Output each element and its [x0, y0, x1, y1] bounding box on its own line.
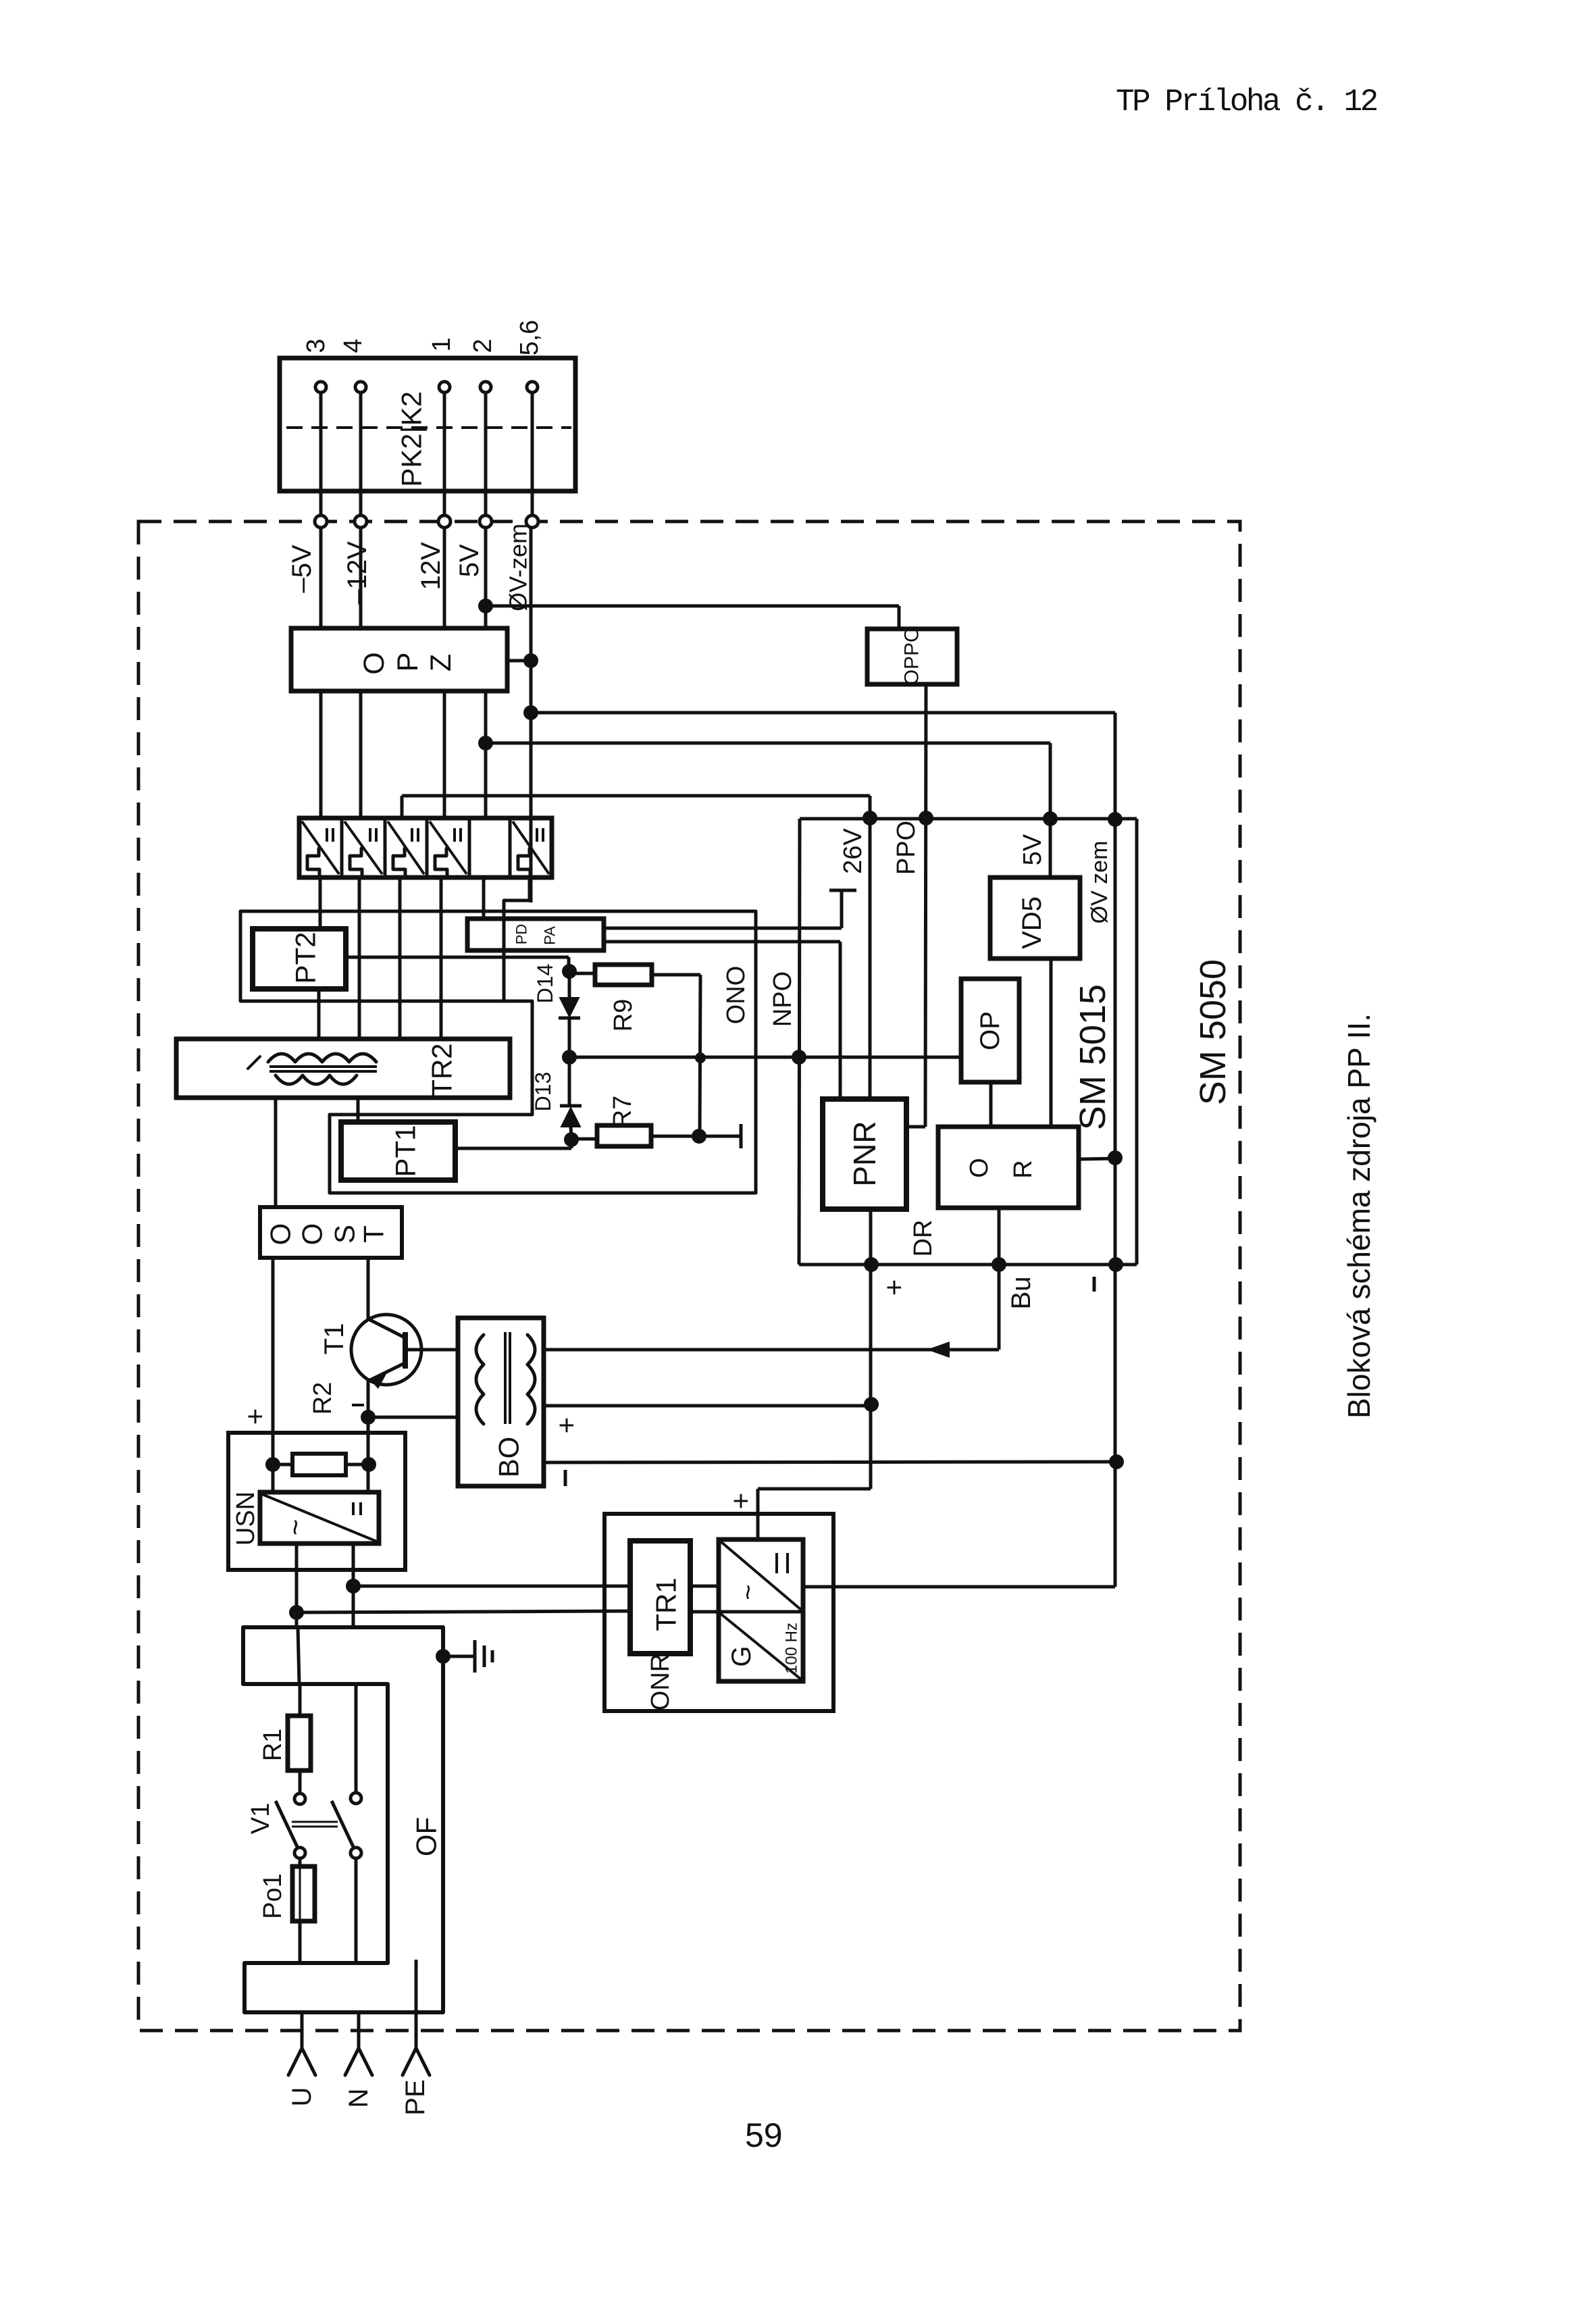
- border pin circle 2: [355, 515, 367, 528]
- wire pin 1 to border: [319, 392, 323, 515]
- converter cell 6 pulse symbol: [518, 848, 530, 876]
- svg-text:~: ~: [733, 1584, 763, 1600]
- switch V1 left blade: [276, 1801, 298, 1848]
- converter cell 6 diagonal: [513, 821, 549, 874]
- transformer TR1: [630, 1541, 690, 1654]
- svg-text:ONO: ONO: [722, 966, 750, 1025]
- wire T1 emitter down: [367, 1381, 370, 1492]
- svg-text:59: 59: [745, 2116, 783, 2154]
- svg-text:T: T: [358, 1225, 390, 1243]
- svg-text:O: O: [965, 1158, 994, 1178]
- svg-text:12V: 12V: [416, 542, 446, 590]
- diode D14: [560, 998, 579, 1017]
- svg-text:OPPO: OPPO: [901, 627, 923, 686]
- connector pin circle 2: [355, 382, 366, 392]
- wire -5V OPZ to converter: [319, 691, 323, 818]
- wire 5V to OPPO: [486, 605, 899, 608]
- wire USN output through OF bar: [298, 1627, 299, 1683]
- wire OOST to USN: [272, 1258, 275, 1492]
- wire OOST to T1 collector: [367, 1258, 370, 1319]
- svg-text:V1: V1: [247, 1803, 275, 1834]
- converter cell 1 diagonal: [302, 821, 339, 874]
- svg-text:+: +: [239, 1408, 271, 1425]
- converter G DC bar 1: [775, 1553, 778, 1573]
- wire USN out right: [352, 1544, 355, 1627]
- DC/DC converter row box: [299, 818, 552, 877]
- wire VD5 to OR: [1050, 959, 1053, 1127]
- converter USN inner: [260, 1492, 379, 1544]
- border pin circle 1: [315, 515, 327, 528]
- border pin circle 5: [526, 515, 538, 528]
- wire 26V feed horizontal: [402, 794, 870, 798]
- wire PPO horizontal: [800, 817, 1137, 821]
- label minus BO: [564, 1470, 567, 1486]
- wire D14 to R9: [569, 972, 595, 975]
- wire 5V rail to VD5 column: [486, 742, 1050, 745]
- wire 26V feed drop to cell3: [401, 796, 404, 818]
- converter G diagonal upper: [721, 1541, 801, 1610]
- terminal arrow N: [345, 2048, 372, 2075]
- converter G DC bar 2: [786, 1553, 789, 1573]
- wire 0V zem rail to ONR: [833, 1585, 1115, 1589]
- svg-text:PNR: PNR: [847, 1121, 882, 1186]
- svg-text:~: ~: [280, 1519, 311, 1536]
- svg-text:ONR: ONR: [646, 1654, 675, 1710]
- svg-text:3: 3: [302, 338, 330, 353]
- resistor R1: [288, 1716, 311, 1770]
- wire PD/PA to 26V terminal: [604, 927, 842, 930]
- wire node to OP: [569, 1056, 961, 1059]
- svg-text:N: N: [344, 2089, 374, 2108]
- junction R9/OP line: [695, 1052, 706, 1063]
- wire R9 right: [652, 973, 700, 977]
- svg-text:PK2|K2: PK2|K2: [396, 391, 428, 487]
- wire PNR top lead left: [839, 942, 842, 1099]
- block OR: [938, 1127, 1079, 1208]
- svg-text:BO: BO: [493, 1437, 525, 1478]
- switch V1 right top contact: [351, 1793, 361, 1804]
- svg-text:OF: OF: [411, 1817, 442, 1856]
- wire BO plus output: [544, 1404, 871, 1408]
- svg-text:Bu: Bu: [1006, 1277, 1036, 1310]
- wire -12V: [359, 528, 363, 628]
- wire D13 to R7: [571, 1138, 597, 1141]
- svg-text:5,6: 5,6: [515, 320, 544, 356]
- junction D14 anode: [562, 964, 577, 979]
- TR2 core line 2: [269, 1070, 377, 1073]
- arrowhead Bu feed: [927, 1342, 950, 1358]
- TR2 core line 1: [269, 1065, 377, 1068]
- junction ground node: [436, 1649, 451, 1664]
- svg-text:PD: PD: [513, 924, 530, 945]
- wire NPO vertical: [799, 819, 800, 1265]
- junction DR/plus rail: [864, 1257, 879, 1272]
- svg-text:R: R: [1009, 1160, 1037, 1178]
- junction USN left/TR1 line: [289, 1605, 304, 1620]
- svg-text:Z: Z: [425, 654, 457, 671]
- wire PT2 right to D14: [346, 956, 569, 959]
- wire TR1 to G lower: [690, 1610, 719, 1614]
- wire R2 right stub: [346, 1463, 368, 1467]
- terminal bar R7 node: [740, 1124, 743, 1148]
- wire 12V: [443, 528, 446, 628]
- junction node/NPO wire: [792, 1050, 806, 1065]
- junction PPO/VD5 column: [1043, 811, 1058, 826]
- svg-text:5V: 5V: [1019, 834, 1047, 865]
- svg-text:SM 5015: SM 5015: [1073, 984, 1113, 1130]
- svg-text:TR1: TR1: [650, 1577, 682, 1631]
- wire R9 drop: [700, 975, 700, 1136]
- wire OPPO top lead: [898, 606, 901, 629]
- wire minus rail drop: [1135, 819, 1139, 1265]
- svg-text:T1: T1: [319, 1323, 349, 1355]
- junction 0V/OPZ stub: [523, 653, 538, 668]
- BO core line 2: [509, 1332, 511, 1424]
- converter cell 4 diagonal: [430, 821, 467, 874]
- TR2 core tick: [248, 1056, 260, 1069]
- wire OPZ right stub to 0V: [507, 659, 531, 663]
- svg-text:SM 5050: SM 5050: [1193, 959, 1233, 1105]
- svg-text:PT1: PT1: [390, 1125, 421, 1177]
- border pin circle 4: [480, 515, 492, 528]
- wire N terminal: [357, 2014, 361, 2048]
- block PD/PA: [467, 919, 604, 950]
- resistor R7: [597, 1125, 651, 1146]
- wire TR2 to OOST: [274, 1098, 278, 1207]
- converter G diagonal lower: [721, 1614, 801, 1679]
- block PT2: [253, 929, 346, 989]
- wire TR1 to G upper: [690, 1585, 719, 1588]
- svg-text:U: U: [287, 2087, 317, 2107]
- wire TR2 to PT1: [357, 1098, 360, 1122]
- svg-text:R1: R1: [259, 1729, 287, 1762]
- svg-text:PT2: PT2: [290, 932, 321, 984]
- wire DR line: [799, 1263, 1137, 1267]
- wire 26V terminal stub: [840, 892, 844, 928]
- box ONO stepped outline: [240, 911, 756, 1193]
- wire R2 left stub: [273, 1463, 292, 1467]
- svg-text:D13: D13: [531, 1072, 555, 1112]
- wire OR right to zem: [1079, 1158, 1115, 1159]
- svg-text:VD5: VD5: [1017, 896, 1047, 949]
- converter divider 4: [468, 818, 471, 877]
- wire Bu vertical: [998, 1208, 1001, 1350]
- svg-text:G: G: [727, 1646, 756, 1666]
- fuse Po1: [292, 1866, 315, 1921]
- wire cell3 to TR2: [398, 877, 402, 1039]
- svg-text:2: 2: [469, 338, 497, 353]
- wire 5V: [484, 528, 488, 628]
- USN converter DC bar 2: [359, 1502, 362, 1515]
- connector pin circle 1: [315, 382, 326, 392]
- junction zem/BO minus: [1109, 1454, 1124, 1469]
- wire -5V: [319, 528, 323, 628]
- connector pin circle 3: [439, 382, 450, 392]
- wire Bu horizontal: [871, 1348, 999, 1352]
- converter divider 3: [426, 818, 429, 877]
- junction 0V/zem line: [523, 705, 538, 720]
- block OP: [961, 979, 1019, 1082]
- wire BO minus output: [544, 1462, 1116, 1462]
- wire 0V jog to ONO: [504, 877, 530, 1001]
- connector pin circle 5: [527, 382, 538, 392]
- svg-text:S: S: [329, 1225, 361, 1244]
- svg-text:P: P: [392, 653, 424, 672]
- junction 5V rail: [478, 736, 493, 750]
- svg-text:26V: 26V: [839, 828, 867, 874]
- junction OPPO/PPO line: [919, 811, 933, 825]
- converter G divider: [719, 1610, 803, 1614]
- block OPPO: [867, 629, 957, 684]
- USN converter diagonal: [262, 1494, 377, 1541]
- wire 0V-zem vertical: [530, 528, 533, 902]
- junction PPO/0V rail: [1108, 812, 1123, 827]
- svg-text:USN: USN: [232, 1492, 260, 1546]
- switch V1 right blade: [332, 1801, 354, 1848]
- wire to ground terminal: [699, 1135, 741, 1138]
- svg-text:TP Príloha č. 12: TP Príloha č. 12: [1116, 84, 1377, 120]
- block OPZ: [291, 628, 507, 691]
- ground bar short: [491, 1650, 494, 1662]
- wire switch right top: [355, 1684, 358, 1793]
- wire OP to OR: [989, 1082, 993, 1127]
- svg-text:4: 4: [339, 338, 367, 353]
- svg-text:O: O: [297, 1223, 328, 1246]
- label minus USN: [352, 1404, 364, 1406]
- border pin circle 3: [438, 515, 451, 528]
- diode D13: [561, 1108, 580, 1127]
- switch coupling line 2: [292, 1826, 338, 1828]
- terminal bar 26V: [829, 889, 856, 892]
- converter cell 3 pulse symbol: [393, 848, 405, 876]
- wire pin 3 to border: [443, 392, 446, 515]
- junction DR/Bu: [992, 1257, 1006, 1272]
- wire -12V OPZ to converter: [359, 691, 363, 818]
- resistor R2: [292, 1454, 346, 1475]
- wire PT1 up to D13 node: [570, 1140, 573, 1148]
- wire 0V zem rail vertical: [1114, 713, 1117, 1587]
- wire 26V rail: [869, 796, 872, 1099]
- junction R7/R9 node: [692, 1129, 706, 1144]
- wire plus into G: [756, 1489, 760, 1538]
- svg-text:+: +: [725, 1493, 756, 1510]
- wire OF to R1: [299, 1684, 302, 1716]
- dashed enclosure border SM 5050: [138, 521, 1240, 2031]
- fuse Po1 wire through: [299, 1866, 301, 1921]
- wire PD/PA lower to PNR: [604, 940, 840, 944]
- wire BO top output: [544, 1348, 871, 1352]
- block PT1: [341, 1122, 455, 1180]
- svg-text:–5V: –5V: [287, 544, 317, 592]
- junction emitter/BO: [361, 1410, 376, 1425]
- ground bar long: [473, 1640, 477, 1673]
- svg-text:ØV-zem: ØV-zem: [505, 524, 532, 611]
- wire cell1 to PT2: [319, 877, 322, 929]
- label minus DR: [1093, 1277, 1096, 1292]
- svg-text:PPO: PPO: [892, 821, 921, 875]
- junction zem/DR line: [1108, 1257, 1123, 1272]
- svg-text:5V: 5V: [455, 544, 484, 577]
- wire G output right: [803, 1585, 833, 1589]
- terminal arrow U: [288, 2048, 315, 2075]
- terminal arrow PE: [403, 2048, 430, 2075]
- wire pin 4 to border: [484, 392, 488, 515]
- TR2 primary winding: [268, 1054, 376, 1062]
- wire plus rail jog: [758, 1487, 871, 1491]
- junction 26V/PPO line: [863, 811, 877, 825]
- converter divider 1: [340, 818, 344, 877]
- svg-text:O: O: [265, 1223, 297, 1246]
- block BO: [458, 1318, 544, 1486]
- junction plus/BO plus: [864, 1397, 879, 1412]
- box OF outline: [243, 1627, 443, 2012]
- wire cell2 to TR2: [358, 877, 361, 1039]
- wire PT2 to TR2: [317, 989, 321, 1039]
- svg-text:PE: PE: [401, 2079, 430, 2115]
- junction R2 left: [265, 1457, 280, 1472]
- svg-text:DR: DR: [909, 1220, 937, 1257]
- connector mating dashed line: [286, 426, 571, 429]
- svg-text:1: 1: [428, 337, 456, 351]
- svg-text:PA: PA: [542, 926, 559, 945]
- svg-text:NPO: NPO: [769, 971, 797, 1027]
- wire Po1 down: [299, 1921, 302, 1963]
- wire R7 right: [651, 1135, 698, 1138]
- block VD5: [990, 877, 1080, 959]
- svg-text:+: +: [878, 1279, 910, 1296]
- junction 5V/OPPO line: [478, 598, 493, 613]
- junction R2 right: [361, 1457, 376, 1472]
- svg-text:+: +: [550, 1417, 582, 1434]
- svg-text:D14: D14: [533, 964, 557, 1004]
- converter cell 2 diagonal: [344, 821, 382, 874]
- svg-text:O: O: [358, 652, 390, 674]
- block ONR: [604, 1514, 833, 1711]
- wire ground lead: [443, 1655, 473, 1658]
- wire VD5 column upper: [1049, 743, 1052, 877]
- converter cell 3 diagonal: [388, 821, 424, 874]
- wire OPPO to PNR: [925, 684, 926, 1127]
- wire USN out left: [295, 1544, 299, 1627]
- wire switch to Po1: [299, 1858, 302, 1866]
- wire PT1 right: [455, 1147, 571, 1150]
- wire pin 2 to border: [359, 392, 363, 515]
- junction zem/OR stub: [1108, 1150, 1123, 1165]
- converter cell 2 pulse symbol: [350, 848, 362, 876]
- switch V1 right bottom contact: [351, 1847, 361, 1858]
- block OOST: [260, 1207, 402, 1258]
- converter divider 5: [509, 818, 512, 877]
- junction D14/D13 node: [562, 1050, 577, 1065]
- BO winding left: [476, 1335, 484, 1424]
- wire 0V zem rail horizontal: [531, 711, 1115, 715]
- wire cell4 to TR2: [440, 877, 443, 1039]
- transformer TR2 box: [176, 1039, 510, 1098]
- connector pin circle 4: [480, 382, 491, 392]
- svg-text:R9: R9: [609, 999, 638, 1032]
- TR2 secondary winding: [276, 1075, 357, 1084]
- connector block PK2/K2: [280, 358, 575, 491]
- converter G box: [719, 1539, 803, 1681]
- junction D13 anode: [564, 1132, 579, 1147]
- wire USN to TR1 upper: [353, 1585, 630, 1588]
- svg-text:100 Hz: 100 Hz: [783, 1623, 801, 1674]
- svg-text:R2: R2: [309, 1382, 337, 1415]
- converter cell 4 pulse symbol: [435, 848, 447, 876]
- resistor R9: [595, 965, 652, 985]
- svg-text:–12V: –12V: [342, 541, 372, 605]
- converter cell 1 pulse symbol: [307, 848, 319, 876]
- junction USN right/TR1 line: [346, 1579, 361, 1594]
- block PNR: [823, 1099, 906, 1209]
- wire cell5 to PD/PA: [482, 877, 486, 919]
- wire emitter to BO: [368, 1416, 458, 1419]
- BO core line 1: [504, 1332, 507, 1424]
- switch V1 left top contact: [294, 1793, 305, 1804]
- wire PNR right stub: [906, 1125, 925, 1129]
- block USN outer: [228, 1433, 405, 1570]
- svg-text:R7: R7: [609, 1096, 637, 1129]
- wire USN to TR1 lower: [297, 1611, 630, 1612]
- svg-text:ØV zem: ØV zem: [1087, 841, 1112, 924]
- wire plus rail PNR down: [869, 1209, 873, 1489]
- svg-text:OP: OP: [975, 1011, 1005, 1050]
- wire U terminal: [301, 2014, 304, 2048]
- svg-text:TR2: TR2: [426, 1043, 458, 1096]
- wire D14 top drop: [567, 957, 571, 971]
- wire R1 to switch: [299, 1770, 302, 1793]
- switch V1 left bottom contact: [294, 1847, 305, 1858]
- USN converter DC bar 1: [352, 1502, 355, 1515]
- wire 5V OPZ to converter: [484, 691, 488, 818]
- transistor T1: [351, 1315, 421, 1385]
- wire 12V OPZ to converter: [443, 691, 446, 818]
- converter divider 2: [384, 818, 387, 877]
- svg-text:Bloková schéma zdroja PP II.: Bloková schéma zdroja PP II.: [1341, 1013, 1376, 1419]
- ground bar mid: [483, 1646, 486, 1667]
- wire switch right bottom: [355, 1858, 358, 1963]
- svg-text:Po1: Po1: [259, 1873, 287, 1919]
- BO winding right: [527, 1335, 535, 1424]
- wire pin 5 to border: [531, 392, 534, 515]
- switch coupling line 1: [292, 1821, 338, 1823]
- wire PE terminal: [415, 1960, 418, 2048]
